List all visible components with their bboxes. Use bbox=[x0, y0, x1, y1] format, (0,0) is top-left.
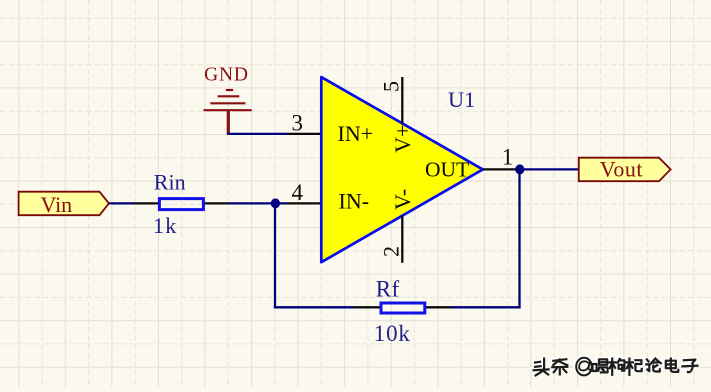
svg-text:U1: U1 bbox=[448, 87, 475, 112]
wire output junction down bbox=[518, 169, 520, 308]
wire feedback bottom left bbox=[274, 306, 354, 308]
op-amp U1 body bbox=[321, 77, 483, 262]
wire output junction to Vout bbox=[517, 168, 579, 170]
svg-text:3: 3 bbox=[291, 110, 303, 135]
svg-text:10k: 10k bbox=[374, 321, 411, 346]
svg-text:Vout: Vout bbox=[600, 156, 643, 181]
op-amp U1 pin 1 (OUT) bbox=[483, 145, 517, 170]
wire Rin to junction bbox=[228, 202, 287, 204]
port Vout bbox=[579, 156, 671, 181]
ground bbox=[204, 65, 252, 134]
junction node at IN- bbox=[271, 198, 280, 208]
op-amp U1 pin 3 (IN+) bbox=[287, 110, 322, 135]
watermark: 头条 @喝枸杞论电子 (drawn strokes) bbox=[532, 356, 698, 376]
op-amp U1 pin 5 (V+) bbox=[379, 77, 404, 124]
svg-text:V-: V- bbox=[390, 189, 415, 210]
svg-text:IN-: IN- bbox=[339, 189, 370, 214]
resistor Rin bbox=[134, 169, 229, 238]
port Vin bbox=[19, 192, 109, 217]
wire Vin to Rin bbox=[109, 202, 135, 204]
wire GND to pin 3 bbox=[227, 133, 288, 135]
svg-text:2: 2 bbox=[379, 246, 404, 257]
svg-text:5: 5 bbox=[379, 81, 404, 92]
svg-text:V+: V+ bbox=[390, 125, 415, 153]
resistor Rf bbox=[353, 276, 452, 346]
svg-text:4: 4 bbox=[291, 180, 303, 205]
svg-text:Rf: Rf bbox=[376, 276, 400, 301]
wire junction IN- down bbox=[274, 203, 276, 308]
wire feedback bottom right bbox=[451, 306, 521, 308]
svg-text:1: 1 bbox=[502, 145, 514, 170]
svg-text:Vin: Vin bbox=[41, 192, 73, 217]
svg-text:Rin: Rin bbox=[154, 169, 186, 194]
op-amp U1 pin 2 (V-) bbox=[379, 216, 404, 263]
svg-text:OUT: OUT bbox=[425, 158, 469, 182]
svg-text:GND: GND bbox=[204, 65, 249, 86]
junction node at output bbox=[515, 164, 524, 174]
svg-text:1k: 1k bbox=[153, 213, 177, 238]
op-amp U1 pin 4 (IN-) bbox=[287, 180, 322, 205]
svg-text:IN+: IN+ bbox=[338, 121, 374, 146]
